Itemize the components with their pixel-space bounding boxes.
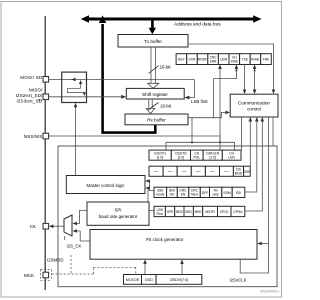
svg-text:16-bit: 16-bit	[160, 65, 172, 70]
wire: row B to comm control	[249, 121, 251, 167]
flag bit labels	[178, 55, 269, 63]
wire: thick read path from Rx buffer to bus	[99, 15, 155, 132]
svg-text:mode: mode	[156, 193, 164, 197]
MISO pin label	[16, 88, 44, 104]
svg-text:MSTR: MSTR	[205, 210, 215, 214]
wire: comm control short stub	[272, 117, 274, 146]
svg-text:Next: Next	[191, 193, 198, 197]
svg-text:[1:0]: [1:0]	[157, 156, 163, 160]
svg-text:DFF: DFF	[202, 191, 208, 195]
wire: row C to comm control	[245, 121, 257, 193]
svg-text:MOSI/ SD: MOSI/ SD	[20, 75, 43, 80]
big I2S block box	[58, 146, 277, 287]
svg-text:SSM: SSM	[223, 191, 230, 195]
svg-text:LSB first: LSB first	[191, 99, 208, 104]
wire: MOSI loop down to shift register (LSB first)	[186, 80, 195, 98]
wire: comm control up to RxNE	[254, 68, 256, 91]
svg-text:—: —	[196, 169, 201, 174]
NSS/WS pin	[43, 133, 49, 139]
svg-text:baud rate generator: baud rate generator	[99, 214, 138, 219]
wire: TXE down to communication control	[244, 65, 246, 91]
svg-text:BSY: BSY	[178, 57, 185, 61]
svg-text:MODF: MODF	[198, 57, 207, 61]
SPI_I2SCFGR register row	[149, 150, 241, 160]
svg-text:SIDE: SIDE	[231, 59, 238, 63]
svg-text:I²S clock generator: I²S clock generator	[146, 237, 184, 242]
wire: baud rate generator to mux	[75, 210, 88, 223]
wire: Rx buffer to RxNE flag	[188, 68, 236, 118]
SPI baud rate generator	[87, 202, 149, 225]
CK pin	[43, 223, 49, 229]
svg-text:CK: CK	[30, 224, 36, 229]
svg-text:MS19909V1: MS19909V1	[260, 290, 279, 294]
svg-text:MISO/: MISO/	[29, 88, 43, 93]
svg-text:SPI: SPI	[114, 208, 121, 213]
svg-text:[1:0]: [1:0]	[178, 156, 184, 160]
svg-text:SSI: SSI	[236, 191, 241, 195]
mux bottom stub	[64, 236, 66, 240]
svg-text:Tx buffer: Tx buffer	[144, 39, 163, 44]
svg-text:Communication: Communication	[238, 101, 270, 106]
wire: register feed line with junction dots	[166, 118, 235, 151]
svg-text:—: —	[168, 169, 173, 174]
address and data bus	[81, 15, 262, 22]
Communication control	[230, 94, 278, 117]
svg-text:ERR: ERR	[210, 59, 217, 63]
wire: MISO line into shift register	[49, 96, 124, 98]
svg-text:CPHA: CPHA	[233, 210, 243, 214]
Master control logic	[66, 176, 145, 194]
wire: control line up into switch box	[74, 103, 78, 176]
svg-text:Rx buffer: Rx buffer	[147, 117, 166, 122]
wire: comm control to row A	[241, 117, 243, 150]
svg-text:First: First	[156, 212, 162, 216]
reserved bits row with I2SMOD / I2SE	[149, 166, 250, 176]
svg-text:(1): (1)	[38, 98, 42, 102]
svg-text:ODD: ODD	[145, 278, 153, 282]
svg-text:I2SxCLK: I2SxCLK	[230, 278, 247, 283]
svg-text:only: only	[213, 193, 219, 197]
svg-text:—: —	[182, 169, 187, 174]
svg-text:BR1: BR1	[185, 210, 192, 214]
svg-text:BR2: BR2	[176, 210, 183, 214]
svg-text:Address and data bus: Address and data bus	[174, 21, 221, 27]
svg-text:I2SMOD: I2SMOD	[47, 258, 63, 263]
MISO pin	[43, 94, 49, 100]
wire: row C to master control logic	[148, 181, 155, 191]
svg-text:EN: EN	[181, 193, 186, 197]
svg-text:MCKOE: MCKOE	[126, 278, 140, 282]
svg-text:OE: OE	[170, 193, 176, 197]
wire: NSS/WS line	[49, 136, 220, 142]
dashed box around MCK pin	[41, 270, 52, 281]
svg-text:BR0: BR0	[195, 210, 202, 214]
svg-text:SPE: SPE	[167, 210, 174, 214]
svg-text:I2SDIV[7:0]: I2SDIV[7:0]	[170, 278, 188, 282]
wire: comm control to I2S clock generator / I2SxCLK	[240, 117, 268, 273]
wire: ODD cell up to clock generator	[144, 263, 146, 275]
svg-text:MCK: MCK	[24, 273, 34, 278]
wire: row D to comm control	[245, 121, 262, 212]
wire: mux to CK pin	[51, 225, 65, 227]
wire: Rx buffer to communication control	[214, 112, 228, 117]
svg-text:OVR: OVR	[189, 57, 197, 61]
svg-text:—: —	[224, 169, 229, 174]
svg-text:FRE: FRE	[263, 57, 269, 61]
svg-text:MOD: MOD	[235, 172, 243, 176]
svg-text:Shift register: Shift register	[142, 92, 168, 97]
svg-text:—: —	[154, 169, 159, 174]
svg-text:TXE: TXE	[242, 57, 248, 61]
svg-text:Master control logic: Master control logic	[87, 183, 126, 188]
svg-text:POL: POL	[193, 156, 200, 160]
pin rail	[44, 16, 46, 290]
svg-text:RxNE: RxNE	[251, 57, 259, 61]
svg-text:[1:0]: [1:0]	[209, 156, 215, 160]
wire: CHSIDE vertical with junctions	[218, 65, 222, 151]
SPI_CR1 low bits row	[154, 206, 245, 216]
MOSI/MISO switch box	[62, 72, 87, 102]
wire: I2SDIV cell up to clock generator	[181, 263, 183, 275]
wire: clock generator to mux	[75, 231, 91, 241]
I2S clock generator	[90, 230, 257, 260]
wire: row D to master control logic	[148, 188, 155, 211]
svg-text:control: control	[247, 107, 261, 112]
wire: Tx buffer to shift register (16-bit hollow arrow)	[148, 47, 159, 88]
Rx buffer	[125, 114, 188, 125]
Tx buffer	[118, 35, 188, 48]
Shift register	[126, 88, 184, 99]
wire: MOSI line	[49, 79, 195, 81]
svg-text:16-bit: 16-bit	[160, 103, 172, 108]
wire: Tx buffer right to communication control	[188, 44, 274, 91]
svg-text:UDR: UDR	[220, 57, 228, 61]
MCKOE / ODD / I2SDIV register row	[124, 275, 202, 285]
svg-text:NSS/WS: NSS/WS	[24, 134, 43, 139]
SPI_SR flag register row	[176, 54, 271, 65]
MOSI/SD pin	[43, 77, 49, 83]
SPI_CR1 high bits row	[154, 187, 245, 197]
clock mux trapezoid	[64, 215, 72, 236]
svg-text:I2SE: I2SE	[243, 170, 250, 174]
svg-text:—: —	[210, 169, 215, 174]
svg-text:LEN: LEN	[228, 156, 235, 160]
internal routing	[71, 79, 75, 81]
svg-text:CPOL: CPOL	[220, 210, 229, 214]
wire: bus write arrow to Tx buffer	[149, 20, 156, 34]
dashed wire: I2SMOD to MCK pin	[52, 255, 136, 275]
MCK pin	[43, 272, 49, 278]
svg-text:I2S_CK: I2S_CK	[67, 244, 82, 249]
wire: shift register to Rx buffer (16-bit hollow arrow)	[146, 99, 158, 114]
